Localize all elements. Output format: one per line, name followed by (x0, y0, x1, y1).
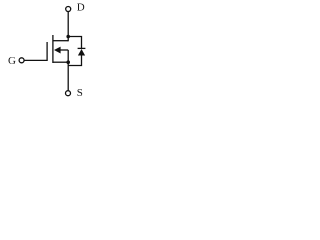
svg-text:D: D (77, 2, 85, 14)
svg-text:S: S (77, 87, 83, 99)
svg-text:G: G (8, 55, 16, 67)
